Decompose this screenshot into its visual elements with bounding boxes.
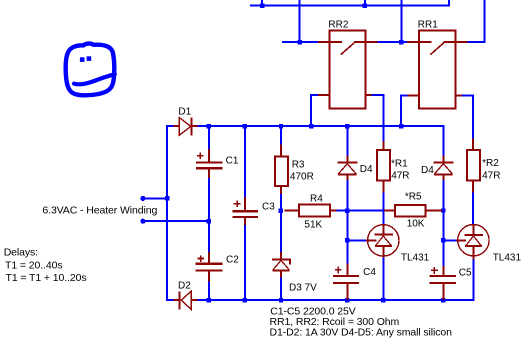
svg-text:10K: 10K (407, 218, 425, 229)
svg-text:TL431: TL431 (401, 252, 430, 263)
svg-text:*R1: *R1 (391, 158, 408, 169)
svg-text:RR1: RR1 (418, 20, 438, 31)
svg-text:470R: 470R (290, 172, 314, 183)
svg-text:D2: D2 (178, 280, 191, 291)
svg-text:C1: C1 (226, 155, 239, 166)
svg-text:47R: 47R (482, 171, 500, 182)
svg-text:C2: C2 (226, 255, 239, 266)
svg-text:*R2: *R2 (482, 158, 499, 169)
svg-text:6.3VAC - Heater Winding: 6.3VAC - Heater Winding (42, 204, 157, 216)
svg-text:47R: 47R (391, 170, 409, 181)
svg-text:D4: D4 (421, 165, 434, 176)
svg-text:T1 = T1 + 10..20s: T1 = T1 + 10..20s (6, 272, 87, 284)
svg-text:R4: R4 (310, 194, 323, 205)
svg-text:R3: R3 (292, 159, 305, 170)
svg-text:51K: 51K (304, 219, 322, 230)
svg-text:RR2: RR2 (328, 19, 348, 30)
svg-text:D1: D1 (178, 107, 191, 118)
svg-text:D4: D4 (360, 164, 373, 175)
svg-text:*R5: *R5 (405, 192, 422, 203)
svg-text:C4: C4 (363, 267, 376, 278)
svg-text:D1-D2: 1A 30V D4-D5: Any small: D1-D2: 1A 30V D4-D5: Any small silicon (270, 326, 453, 338)
svg-text:C5: C5 (459, 268, 472, 279)
svg-text:T1 = 20..40s: T1 = 20..40s (5, 259, 62, 271)
svg-text:D3 7V: D3 7V (289, 283, 317, 294)
svg-text:C3: C3 (262, 202, 275, 213)
svg-text:Delays:: Delays: (4, 247, 38, 259)
svg-text:TL431: TL431 (493, 252, 522, 263)
